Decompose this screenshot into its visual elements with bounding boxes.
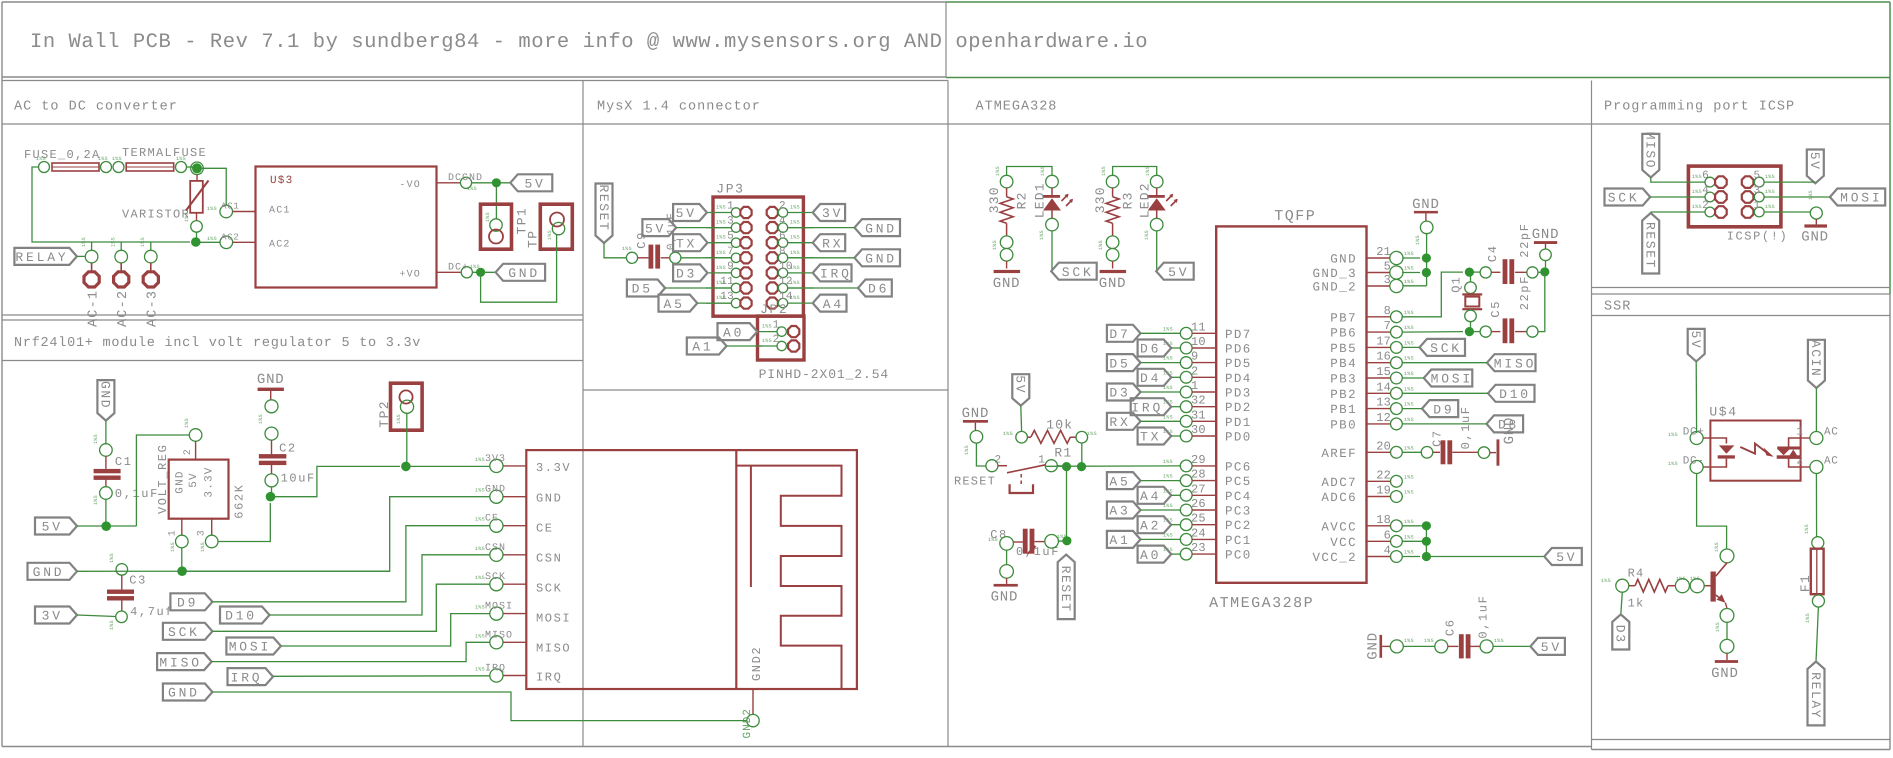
svg-text:5V: 5V	[42, 520, 63, 535]
svg-text:7: 7	[1384, 319, 1391, 333]
svg-text:MISO: MISO	[536, 642, 571, 656]
wire junction to 3V3 riser	[271, 466, 401, 496]
svg-text:1%S: 1%S	[1087, 431, 1097, 437]
svg-text:VARISTOR: VARISTOR	[122, 208, 190, 222]
wire LED2 to 5V flag	[1156, 231, 1158, 271]
svg-text:PC4: PC4	[1225, 490, 1252, 504]
svg-text:1%S: 1%S	[1714, 542, 1720, 552]
svg-text:1%S: 1%S	[112, 156, 122, 162]
svg-text:27: 27	[1191, 482, 1206, 496]
svg-text:GND: GND	[485, 485, 506, 496]
wire GND flag to C1	[105, 421, 107, 444]
svg-text:13: 13	[1376, 396, 1391, 410]
svg-text:A1: A1	[1109, 533, 1130, 548]
net flag D3 (SSR)	[1612, 614, 1629, 649]
svg-text:ICSP(!): ICSP(!)	[1727, 230, 1789, 244]
svg-text:PB6: PB6	[1330, 327, 1357, 341]
svg-text:1%S: 1%S	[1668, 461, 1678, 467]
pin DC+ of U$4	[1690, 432, 1703, 445]
svg-text:1%S: 1%S	[716, 250, 726, 256]
svg-text:1%S: 1%S	[1163, 459, 1173, 465]
svg-text:D4: D4	[1140, 371, 1161, 386]
svg-text:1%S: 1%S	[790, 250, 800, 256]
net flag 3V	[35, 607, 77, 624]
svg-text:A3: A3	[1109, 504, 1130, 519]
svg-text:1%S: 1%S	[93, 434, 99, 444]
svg-text:SSR: SSR	[1604, 300, 1631, 315]
net flag ACIN	[1808, 340, 1825, 388]
svg-text:PD4: PD4	[1225, 372, 1252, 386]
net flag 3V (JP3 pin2)	[813, 204, 845, 221]
svg-text:4: 4	[1384, 544, 1391, 558]
junction XTAL1	[1465, 268, 1474, 277]
svg-text:GND: GND	[175, 470, 187, 493]
svg-text:ATMEGA328: ATMEGA328	[976, 100, 1058, 115]
svg-text:-VO: -VO	[399, 180, 421, 191]
test point TP1	[481, 204, 512, 249]
wire 3V flag to C3	[77, 615, 116, 617]
svg-text:0,1uF: 0,1uF	[1477, 595, 1491, 639]
svg-text:PD0: PD0	[1225, 431, 1252, 445]
svg-text:TP2: TP2	[377, 400, 392, 428]
pin DC- of U$4	[1690, 461, 1703, 474]
wire ICSP pin3 to MOSI	[1764, 196, 1830, 198]
svg-text:2: 2	[183, 449, 194, 456]
svg-text:PD5: PD5	[1225, 357, 1252, 371]
wire C2 to junction	[271, 487, 273, 493]
svg-text:31: 31	[1191, 408, 1206, 422]
svg-text:22: 22	[1376, 468, 1391, 482]
svg-text:AC-2: AC-2	[116, 290, 131, 327]
svg-text:TX: TX	[676, 236, 697, 251]
junction varistor/AC2	[191, 237, 201, 247]
svg-text:5V: 5V	[1556, 550, 1577, 565]
svg-text:1%S: 1%S	[1424, 638, 1434, 644]
svg-text:3.3V: 3.3V	[204, 466, 216, 497]
pin +VO / DC+ of U$3	[437, 271, 461, 273]
svg-text:6: 6	[1384, 528, 1391, 542]
svg-text:4: 4	[1702, 185, 1709, 197]
net flag IRQ (JP3 pin10)	[813, 264, 852, 281]
svg-text:9: 9	[1191, 350, 1198, 364]
svg-text:AC-3: AC-3	[146, 290, 161, 327]
net flag GND (DC output)	[496, 264, 545, 281]
net flag MISO (ICSP)	[1642, 134, 1659, 178]
left pin flags D7-TX	[1107, 325, 1141, 342]
svg-text:24: 24	[1191, 526, 1206, 540]
svg-text:25: 25	[1191, 512, 1206, 526]
svg-text:TP: TP	[526, 230, 541, 248]
wire PB7 to crystal	[1402, 272, 1463, 317]
svg-text:D5: D5	[1109, 356, 1130, 371]
optocoupler/SSR U$4	[1710, 421, 1800, 481]
svg-text:Programming port ICSP: Programming port ICSP	[1604, 100, 1795, 115]
svg-text:1%S: 1%S	[1494, 638, 1504, 644]
svg-text:1%S: 1%S	[176, 156, 186, 162]
svg-text:GND2: GND2	[742, 708, 754, 738]
svg-text:+VO: +VO	[399, 270, 421, 281]
svg-text:1%S: 1%S	[1404, 550, 1414, 556]
svg-text:1%S: 1%S	[93, 495, 99, 505]
svg-text:3V: 3V	[42, 609, 63, 624]
wire -VO to 5V flag	[472, 182, 511, 184]
svg-text:1%S: 1%S	[200, 542, 206, 552]
capacitor C5 22pF	[1469, 331, 1480, 333]
junction GND pin 5	[1422, 268, 1431, 277]
GND supply right of C7 (rotated)	[1490, 452, 1496, 454]
svg-text:MOSI: MOSI	[485, 602, 513, 613]
svg-text:1%S: 1%S	[1145, 166, 1151, 176]
net flag 5V (bottom)	[1530, 638, 1565, 655]
svg-text:AREF: AREF	[1321, 447, 1357, 461]
net flag 5V (LED2)	[1156, 263, 1194, 280]
svg-text:GND: GND	[962, 406, 990, 422]
svg-text:1%S: 1%S	[790, 220, 800, 226]
transistor base pins	[1675, 579, 1689, 593]
svg-text:1%S: 1%S	[36, 156, 46, 162]
pin 2 AC of U$4	[1810, 461, 1823, 474]
svg-text:A0: A0	[1140, 548, 1161, 563]
svg-text:SCK: SCK	[536, 582, 562, 596]
svg-text:GND: GND	[1330, 253, 1357, 267]
svg-text:1%S: 1%S	[716, 205, 726, 211]
wire +VO to GND flag	[472, 271, 495, 273]
svg-text:LED1: LED1	[1033, 182, 1048, 218]
svg-text:GND: GND	[1099, 276, 1127, 292]
svg-text:4: 4	[779, 216, 786, 228]
capacitor C1	[100, 444, 113, 457]
svg-text:1%S: 1%S	[1404, 417, 1414, 423]
svg-text:C4: C4	[1486, 244, 1500, 262]
svg-text:VCC: VCC	[1330, 536, 1357, 550]
net flag A5 (JP3 pin13)	[659, 295, 698, 312]
net flag 5V (ICSP)	[1807, 150, 1824, 184]
svg-text:D3: D3	[676, 267, 697, 282]
wire 5V flag to junction and up to VOLT_REG pin 2	[77, 525, 136, 527]
net flag 5V (SSR)	[1688, 329, 1705, 362]
GND supply below transistor	[1726, 653, 1728, 660]
svg-text:GND: GND	[168, 686, 200, 701]
svg-text:28: 28	[1191, 468, 1206, 482]
svg-text:1%S: 1%S	[790, 295, 800, 301]
svg-text:5: 5	[1384, 260, 1391, 274]
svg-text:1%S: 1%S	[140, 237, 146, 247]
svg-text:CE: CE	[485, 514, 499, 525]
svg-text:RESET: RESET	[1643, 222, 1658, 269]
svg-text:1: 1	[1796, 426, 1803, 438]
wire TP2 to 3V3 rail	[406, 413, 408, 466]
svg-text:C1: C1	[115, 455, 133, 469]
svg-text:1%S: 1%S	[1404, 519, 1414, 525]
svg-text:1%S: 1%S	[207, 236, 217, 242]
capacitor C3	[116, 564, 128, 576]
svg-text:1%S: 1%S	[1098, 240, 1104, 250]
svg-text:1%S: 1%S	[170, 542, 176, 552]
wire D9 to CE pin	[212, 526, 489, 602]
svg-text:1%S: 1%S	[762, 338, 772, 344]
svg-text:1%S: 1%S	[1805, 613, 1811, 623]
svg-text:1%S: 1%S	[1690, 576, 1700, 582]
svg-text:3V: 3V	[822, 206, 843, 221]
microcontroller U1 ATMEGA328P TQFP	[1216, 226, 1366, 582]
svg-text:1%S: 1%S	[1601, 578, 1611, 584]
svg-text:GND: GND	[1801, 230, 1829, 246]
svg-text:1k: 1k	[1628, 596, 1645, 610]
svg-text:662K: 662K	[233, 483, 247, 518]
svg-text:MISO: MISO	[485, 630, 513, 641]
svg-text:SCK: SCK	[485, 572, 506, 583]
test point TP	[540, 204, 572, 249]
svg-text:VCC_2: VCC_2	[1312, 551, 1357, 565]
svg-text:1: 1	[1191, 379, 1198, 393]
junction VCC	[1422, 537, 1431, 546]
svg-text:1%S: 1%S	[1404, 266, 1414, 272]
svg-text:1: 1	[1754, 200, 1761, 212]
resistor R1 10k	[1016, 431, 1028, 443]
AC/DC module U$3	[256, 167, 437, 288]
svg-text:1%S: 1%S	[1404, 251, 1414, 257]
svg-text:1%S: 1%S	[1765, 174, 1775, 180]
net flag GND (JP3 pin8)	[855, 249, 901, 266]
svg-text:ATMEGA328P: ATMEGA328P	[1209, 595, 1314, 612]
pin AC1 of U$3	[220, 205, 233, 218]
wire F1 to RELAY flag	[1816, 607, 1818, 662]
net flag GND (top, at C1)	[97, 380, 114, 421]
net flag 5V (regulator input)	[35, 518, 77, 535]
wire A5	[697, 302, 731, 304]
svg-text:PD2: PD2	[1225, 401, 1252, 415]
svg-text:GND: GND	[508, 266, 540, 281]
module pins	[490, 459, 503, 472]
svg-text:RESET: RESET	[596, 184, 611, 231]
svg-text:330: 330	[1093, 186, 1108, 213]
svg-text:19: 19	[1376, 484, 1391, 498]
net flag D10	[220, 607, 270, 624]
wire LED1 to SCK flag	[1051, 231, 1053, 271]
svg-text:AC2: AC2	[269, 240, 291, 251]
net flag 5V (DC output)	[510, 174, 552, 191]
svg-text:MOSI: MOSI	[1431, 372, 1473, 387]
net flag SCK (PB5)	[1420, 339, 1466, 356]
svg-text:RESET: RESET	[954, 474, 996, 488]
net flag GND (bottom)	[163, 684, 213, 701]
svg-text:A2: A2	[1140, 518, 1161, 533]
svg-text:GND: GND	[536, 492, 562, 506]
svg-text:PC3: PC3	[1225, 505, 1252, 519]
svg-text:22pF: 22pF	[1518, 222, 1532, 257]
svg-text:TX: TX	[1140, 430, 1161, 445]
svg-text:3: 3	[727, 216, 734, 228]
svg-text:D6: D6	[1140, 342, 1161, 357]
junction XTAL2	[1465, 327, 1474, 336]
wire GND flag to C3 and junction	[77, 570, 390, 572]
GND supply below R2	[1006, 261, 1008, 268]
svg-text:JP2: JP2	[760, 302, 788, 317]
svg-text:PINHD-2X01_2.54: PINHD-2X01_2.54	[759, 367, 890, 382]
svg-text:10: 10	[1191, 335, 1206, 349]
svg-text:5V: 5V	[676, 206, 697, 221]
svg-text:8: 8	[779, 246, 786, 258]
wire GND to switch	[976, 443, 986, 466]
svg-text:1%S: 1%S	[1692, 204, 1702, 210]
pin chain GND to C2	[265, 400, 278, 413]
svg-text:1%S: 1%S	[109, 620, 115, 630]
svg-text:PC2: PC2	[1225, 519, 1252, 533]
GND supply below R3	[1112, 261, 1114, 268]
svg-text:MOSI: MOSI	[536, 612, 571, 626]
svg-text:1%S: 1%S	[790, 205, 800, 211]
svg-text:1%S: 1%S	[184, 418, 190, 428]
svg-text:1%S: 1%S	[475, 517, 485, 523]
svg-text:5V: 5V	[1013, 375, 1028, 394]
svg-text:1%S: 1%S	[1404, 340, 1414, 346]
svg-text:AC-1: AC-1	[87, 290, 102, 327]
svg-text:29: 29	[1191, 453, 1206, 467]
svg-text:1: 1	[727, 201, 734, 213]
svg-text:MysX 1.4 connector: MysX 1.4 connector	[597, 100, 761, 115]
svg-text:C2: C2	[279, 442, 297, 456]
svg-text:PB3: PB3	[1330, 373, 1357, 387]
net flag MOSI (ICSP)	[1830, 189, 1885, 206]
svg-text:CSN: CSN	[485, 543, 506, 554]
net flag MOSI	[226, 638, 281, 655]
junction DC+ node	[476, 268, 485, 277]
svg-text:1%S: 1%S	[258, 414, 264, 424]
svg-text:15: 15	[1376, 365, 1391, 379]
svg-text:1%S: 1%S	[1404, 445, 1414, 451]
pad AC-1	[85, 250, 98, 263]
wire SCK to SCK pin	[212, 584, 489, 631]
junction reset rail 2	[1077, 462, 1086, 471]
junction reset rail 1	[1062, 462, 1071, 471]
wire LED circuit 2 top	[1113, 167, 1157, 176]
svg-text:U$4: U$4	[1709, 405, 1737, 420]
test point TP2	[391, 383, 423, 430]
wire C6 to 5V	[1493, 645, 1530, 647]
svg-text:ADC6: ADC6	[1321, 491, 1357, 505]
svg-text:D3: D3	[1613, 625, 1628, 644]
svg-text:MOSI: MOSI	[1840, 191, 1882, 206]
svg-text:RX: RX	[1109, 415, 1130, 430]
junction TP2/3V3	[401, 462, 411, 472]
U$4 internal LED	[1710, 438, 1726, 444]
wire MOSI to MOSI pin	[281, 614, 490, 646]
wire 5V to R1	[1020, 406, 1023, 432]
svg-text:GND: GND	[98, 381, 113, 409]
svg-text:1%S: 1%S	[716, 220, 726, 226]
svg-text:1%S: 1%S	[1765, 189, 1775, 195]
svg-text:C6: C6	[1444, 618, 1458, 636]
svg-text:IRQ: IRQ	[485, 664, 506, 675]
svg-text:3V3: 3V3	[485, 454, 506, 465]
svg-text:9: 9	[727, 261, 734, 273]
junction GND rail at pin1	[177, 566, 187, 576]
svg-text:1%S: 1%S	[995, 166, 1001, 176]
net flag A1 (JP2 pin2)	[687, 338, 727, 355]
junction 5V/C1	[101, 521, 111, 531]
net flag D5 (JP3 pin11)	[627, 280, 665, 297]
svg-text:D3: D3	[1109, 386, 1130, 401]
svg-text:7: 7	[727, 246, 734, 258]
wire DC+ around to TP	[481, 234, 557, 302]
svg-text:1%S: 1%S	[762, 324, 772, 330]
svg-text:GND: GND	[991, 589, 1019, 605]
svg-text:1%S: 1%S	[475, 667, 485, 673]
net flag 5V (VCC rail)	[1544, 548, 1582, 565]
svg-text:3: 3	[1384, 273, 1391, 287]
net flag D9 (PB1)	[1422, 400, 1458, 417]
svg-text:U$3: U$3	[270, 175, 293, 187]
svg-text:GND: GND	[257, 372, 285, 388]
wire C1 to 5V rail	[105, 499, 107, 527]
junction fuse output	[191, 162, 204, 175]
svg-text:IRQ: IRQ	[1131, 400, 1163, 415]
wire varistor to AC2 wire	[196, 232, 198, 242]
svg-text:1%S: 1%S	[1404, 534, 1414, 540]
svg-text:LED2: LED2	[1137, 182, 1152, 218]
svg-text:1%S: 1%S	[1808, 190, 1814, 200]
svg-text:AC1: AC1	[269, 206, 291, 217]
svg-text:GND: GND	[865, 252, 897, 267]
net flag 5V (reset pullup)	[1012, 374, 1029, 406]
svg-text:1%S: 1%S	[475, 488, 485, 494]
svg-text:VOLT_REG: VOLT_REG	[156, 444, 170, 514]
wire PB6 to crystal	[1402, 331, 1463, 334]
svg-text:C5: C5	[1489, 300, 1503, 318]
wire GND flag to module GND2	[212, 692, 746, 721]
svg-text:3: 3	[1754, 185, 1761, 197]
svg-text:PD6: PD6	[1225, 343, 1252, 357]
svg-text:GND: GND	[1366, 632, 1382, 660]
resistor R3 330	[1106, 175, 1119, 188]
svg-text:1%S: 1%S	[485, 212, 491, 222]
svg-text:A4: A4	[1140, 489, 1161, 504]
svg-text:2: 2	[773, 334, 780, 346]
wire 5V to DC+	[1695, 361, 1697, 433]
svg-text:1%S: 1%S	[1404, 325, 1414, 331]
svg-text:1%S: 1%S	[1404, 279, 1414, 285]
svg-text:20: 20	[1376, 439, 1391, 453]
wire VOLT_REG pin3 to C2 junction	[218, 503, 270, 542]
svg-text:1%S: 1%S	[1404, 402, 1414, 408]
svg-text:JP3: JP3	[716, 181, 744, 196]
svg-text:1%S: 1%S	[1404, 371, 1414, 377]
connector JP3	[713, 197, 803, 316]
svg-text:RX: RX	[822, 236, 843, 251]
svg-text:1%S: 1%S	[467, 186, 477, 192]
svg-text:GND: GND	[1412, 197, 1440, 213]
svg-text:1%S: 1%S	[964, 445, 970, 455]
capacitor C7 0,1uF on AREF	[1402, 451, 1421, 453]
svg-text:IRQ: IRQ	[231, 670, 263, 685]
svg-text:1%S: 1%S	[184, 212, 190, 222]
svg-text:1%S: 1%S	[81, 237, 87, 247]
junction DCGND node	[492, 178, 501, 187]
svg-text:CSN: CSN	[536, 552, 562, 566]
svg-text:3.3V: 3.3V	[536, 461, 571, 475]
svg-text:C7: C7	[1431, 429, 1445, 447]
wire A1	[727, 345, 763, 347]
svg-text:D10: D10	[1499, 387, 1531, 402]
svg-text:MISO: MISO	[159, 655, 201, 670]
svg-text:C3: C3	[129, 574, 147, 588]
net flag D6 (JP3 pin12)	[858, 280, 892, 297]
svg-text:AC: AC	[1824, 426, 1838, 438]
wire fuse to junction	[187, 166, 198, 168]
junction C4/GND	[1540, 267, 1549, 276]
net flag MOSI (PB3)	[1424, 370, 1473, 387]
svg-text:IRQ: IRQ	[820, 267, 852, 282]
